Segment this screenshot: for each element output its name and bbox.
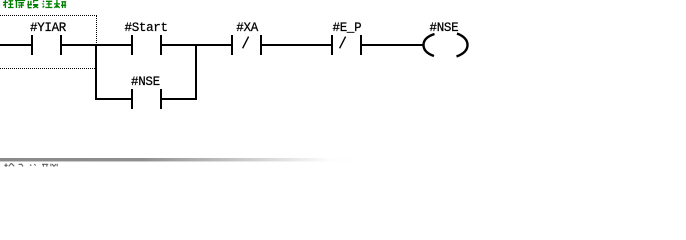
wire: YIAR to Start [62,44,131,46]
branch contact #NSE label [131,76,160,88]
contact E_P slash [337,35,348,50]
separator soft lower edge [0,161,360,162]
contact XA (NC) left bar [231,35,233,55]
contact XA (NC) right bar [260,35,262,55]
contact E_P (NC) right bar [360,35,362,55]
network comment text (green, clipped at top) [0,0,70,9]
contact Start left bar [131,35,133,55]
wire: E_P to coil NSE [362,44,423,46]
wire: XA to E_P [262,44,331,46]
branch wire: left vertical to NSE contact [95,98,131,100]
contact #Start label [125,22,168,34]
contact YIAR left bar [31,35,33,55]
wire: left rail to contact YIAR [0,44,31,46]
contact YIAR right bar [60,35,62,55]
contact #YIAR label [30,22,66,34]
contact #XA label [236,22,258,34]
next network comment text (gray, clipped at bottom) [0,163,70,167]
branch right vertical [195,44,197,100]
contact XA slash [240,35,251,50]
separator groove line [0,158,360,161]
coil #NSE label [430,22,459,34]
selection rectangle (dotted) around first contact [0,15,97,69]
branch wire: NSE contact to right vertical [162,98,197,100]
contact E_P (NC) left bar [331,35,333,55]
branch contact NSE left bar [131,89,133,109]
contact #E_P label [333,22,362,34]
branch contact NSE right bar [160,89,162,109]
wire: Start to XA [162,44,231,46]
coil NSE left paren [408,31,483,59]
branch left vertical [95,44,97,100]
contact Start right bar [160,35,162,55]
